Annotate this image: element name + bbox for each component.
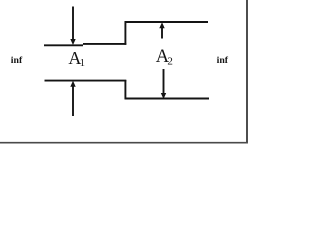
wire: top-right duct wall [125, 21, 209, 23]
wire: bottom-right duct wall [125, 98, 210, 100]
wire: bottom step vertical [124, 80, 126, 99]
arrow: A1 down arrow (above top-left wall) [70, 7, 75, 46]
arrow: A1 up arrow (below bottom-left wall) [70, 81, 75, 116]
svg-text:inf: inf [11, 55, 23, 66]
arrow: A2 up arrow (inside duct, to top-right wall) [159, 22, 164, 38]
arrow: A2 down arrow (inside duct, to bottom-right wall) [161, 69, 166, 99]
svg-text:inf: inf [217, 55, 229, 66]
frame right border [246, 0, 248, 144]
frame bottom border [0, 142, 248, 144]
wire: top step vertical [124, 22, 126, 45]
wire: bottom-left duct wall [45, 80, 127, 82]
wire: top-left duct wall [44, 44, 83, 46]
